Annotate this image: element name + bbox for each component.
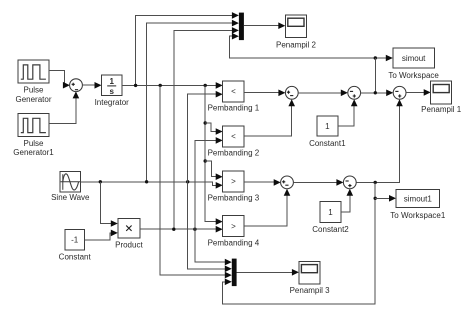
op sum6 [281, 176, 294, 189]
node junction integrator-mux2 [159, 84, 162, 87]
node junction A-bus to Pembanding 3 [204, 159, 207, 162]
wire W31 sum7 branch down to mux2 input4 [222, 182, 375, 304]
op sum1 [70, 79, 83, 92]
wire W10 Sine Wave output to Pembanding 3 input2 [81, 182, 218, 186]
svg-text:Generator: Generator [15, 95, 51, 104]
node junction sum4-simout [374, 91, 377, 94]
wire sum4 output up-branch [374, 58, 376, 93]
wire W14 A-bus vertical to Pembanding 4 input1 [205, 85, 217, 221]
wire W23 Constant1 to sum4 bottom [338, 104, 354, 126]
node junction sum7 down-branch [374, 181, 377, 184]
svg-text:Penampil 1: Penampil 1 [421, 105, 462, 114]
svg-text:<: < [231, 132, 236, 141]
svg-text:Pulse: Pulse [23, 86, 44, 95]
wire W11 sine branch to Product input1 [100, 182, 112, 224]
wire jog A-bus to Pembanding 2 input1 [205, 123, 217, 132]
svg-text:Penampil 2: Penampil 2 [276, 40, 317, 49]
wire W4 Integrator output bus to Pembanding 1 input1 [122, 84, 217, 86]
block Pembanding 4 [208, 216, 260, 248]
svg-text:To Workspace: To Workspace [388, 71, 439, 80]
wire W29 Constant2 to sum7 bottom [341, 194, 350, 212]
svg-text:Penampil 3: Penampil 3 [290, 286, 331, 295]
node junction sine B-bus [186, 180, 189, 183]
node A junction integrator-mux1 [134, 84, 137, 87]
node junction sine-mux1 [145, 180, 148, 183]
node junction sine-product [99, 180, 102, 183]
wire W6 sine to mux1 input2 [147, 23, 234, 182]
svg-text:Pembanding 4: Pembanding 4 [208, 238, 260, 247]
wire W2 Pulse Generator1 to sum1 bottom [49, 96, 76, 124]
svg-text:1: 1 [325, 122, 330, 131]
block Product [115, 218, 143, 249]
block Sine Wave [51, 172, 90, 202]
wire W32 mux2 to Penampil 3 [237, 271, 294, 273]
wire simout1 feed [375, 197, 390, 199]
op sum4 [348, 86, 361, 99]
wire W8 sum4 loop to mux1 input4 and simout [230, 36, 387, 58]
block Pembanding 1 [208, 81, 260, 113]
svg-text:Pulse: Pulse [23, 139, 44, 148]
wire W30 sum7 to sum5 bottom [356, 104, 399, 182]
wire W15 B-bus up to Pembanding 1 input2 [188, 94, 218, 182]
wire W24 sum4 to sum5 [361, 92, 387, 94]
wire W7 product to mux1 input3 [174, 30, 233, 229]
svg-text:Generator1: Generator1 [13, 148, 54, 157]
wire W22 sum3 to sum4 [298, 92, 341, 94]
node junction A-bus to Pembanding 2 [204, 121, 207, 124]
wire W28 sum6 to sum7 [294, 181, 337, 183]
svg-text:1: 1 [109, 77, 114, 86]
block Constant1 [309, 116, 346, 148]
scope Penampil 2 [276, 15, 317, 49]
node junction product C-bus [193, 228, 196, 231]
svg-text:s: s [109, 87, 114, 96]
node junction simout1 branch [374, 197, 377, 200]
block Constant (-1) [59, 230, 92, 262]
svg-text:Constant1: Constant1 [309, 139, 346, 148]
scope Penampil 1 [421, 81, 462, 114]
svg-text:-1: -1 [71, 236, 79, 245]
svg-text:<: < [231, 87, 236, 96]
wire jog A-bus to Pembanding 3 input1 [205, 161, 217, 177]
wire W3 sum1 to Integrator [82, 84, 95, 86]
wire W13 Product output to Pembanding 4 input2 [140, 228, 217, 230]
wire W16 B-bus down to mux2 input2 [188, 182, 227, 269]
wire W9 mux1 to Penampil 2 [244, 25, 280, 27]
mux Mux2 [232, 259, 237, 287]
block Pulse Generator [15, 60, 51, 104]
svg-text:To Workspace1: To Workspace1 [390, 211, 446, 220]
mux Mux1 [239, 13, 244, 40]
block Pulse Generator1 [13, 113, 54, 157]
block Pembanding 3 [208, 171, 260, 203]
block Constant2 [312, 202, 349, 235]
op sum7 [343, 176, 356, 189]
svg-text:Constant2: Constant2 [312, 225, 349, 234]
wire W21 Pembanding 2 to sum3 bottom [244, 104, 292, 135]
wire W17 C-bus up to Pembanding 2 input2 [195, 140, 217, 229]
svg-text:simout: simout [402, 54, 426, 63]
svg-text:1: 1 [328, 208, 333, 217]
svg-text:>: > [231, 222, 236, 231]
svg-text:Pembanding 1: Pembanding 1 [208, 104, 260, 113]
block simout To Workspace [388, 48, 439, 80]
block Pembanding 2 [208, 126, 260, 158]
node junction simout branch [374, 56, 377, 59]
wire W19 A-bus down to mux2 input3 [160, 85, 226, 275]
svg-text:Pembanding 3: Pembanding 3 [208, 194, 260, 203]
wire W12 Constant to Product input2 [84, 233, 112, 240]
wire W1 Pulse Generator to sum1 [49, 71, 65, 86]
wire W18 C-bus down to mux2 input1 [195, 229, 227, 262]
svg-text:Integrator: Integrator [95, 98, 130, 107]
op sum3 [285, 86, 298, 99]
wire W5 integrator to mux1 input1 [136, 15, 234, 85]
op sum5 [393, 86, 406, 99]
svg-text:simout1: simout1 [404, 194, 433, 203]
svg-text:Sine Wave: Sine Wave [51, 193, 90, 202]
wire W25 sum5 to Penampil 1 [406, 91, 425, 93]
svg-text:Pembanding 2: Pembanding 2 [208, 149, 260, 158]
block simout1 To Workspace1 [390, 190, 446, 221]
wire W26 Pembanding 3 to sum6 [244, 181, 275, 183]
svg-text:Constant: Constant [59, 252, 92, 261]
svg-text:>: > [231, 177, 236, 186]
wire W20 Pembanding 1 to sum3 [244, 92, 279, 94]
block Integrator U1 [95, 75, 130, 107]
node junction product-mux1 [172, 228, 175, 231]
node junction integrator A-bus [204, 84, 207, 87]
scope Penampil 3 [290, 261, 331, 295]
wire W27 Pembanding 4 to sum6 bottom [244, 194, 287, 226]
svg-text:Product: Product [115, 241, 143, 250]
